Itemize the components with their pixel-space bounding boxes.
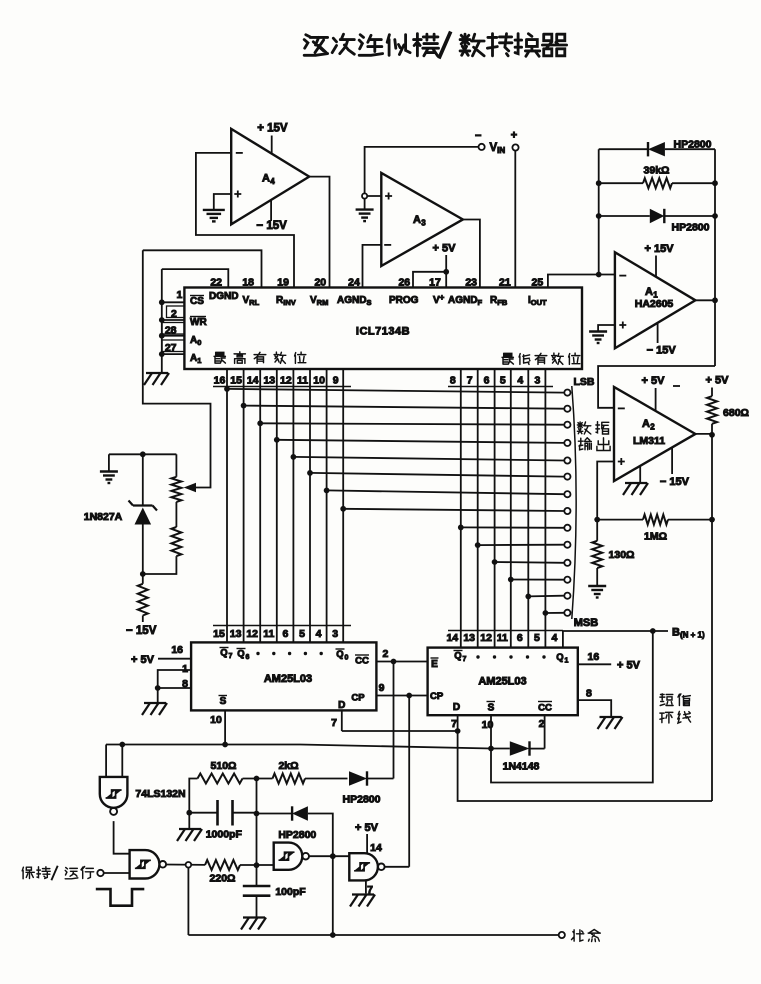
- svg-text:12: 12: [280, 375, 292, 387]
- terminal 状态: [559, 932, 565, 938]
- svg-text:6: 6: [517, 632, 523, 644]
- svg-text:+ 5V: + 5V: [433, 243, 457, 255]
- svg-text:22: 22: [210, 277, 222, 289]
- ground at U2 pin8: [142, 703, 167, 715]
- svg-text:1MΩ: 1MΩ: [644, 531, 667, 543]
- wire to ground A3: [364, 199, 366, 210]
- svg-text:ICL7134B: ICL7134B: [356, 326, 410, 338]
- DAC top pin numbers: [210, 277, 543, 289]
- wire A3 output to pin23: [463, 220, 480, 288]
- DAC top pin names: [209, 291, 547, 307]
- resistor 39k: [596, 178, 718, 188]
- svg-text:13: 13: [230, 628, 242, 640]
- terminal VIN+: [511, 130, 519, 151]
- ground at control pins: [144, 373, 169, 385]
- svg-text:− 15V: − 15V: [256, 220, 287, 232]
- svg-text:7: 7: [463, 656, 467, 663]
- svg-text:Q: Q: [336, 649, 343, 660]
- label HP2800 top: [674, 139, 712, 151]
- svg-text:AGNDF: AGNDF: [448, 295, 482, 307]
- terminal VIN-: [475, 130, 485, 150]
- label 2kΩ: [278, 760, 298, 772]
- D bus line: [342, 728, 461, 734]
- CC bus down to timing chain: [393, 662, 395, 779]
- svg-text:16: 16: [588, 651, 600, 663]
- A1 +15V supply: [644, 243, 674, 277]
- svg-text:20: 20: [314, 277, 326, 289]
- wire IOUT pin25 to A1 -: [548, 275, 615, 288]
- DAC label 最低有效位: [502, 353, 580, 364]
- junction zener top: [140, 451, 146, 457]
- wire A3 - input to pin24: [363, 245, 382, 288]
- svg-text:11: 11: [263, 628, 274, 640]
- potentiometer lower resistor: [143, 502, 182, 574]
- label 680Ω: [723, 407, 749, 419]
- CP bus down to gate4: [408, 696, 410, 867]
- svg-text:Q: Q: [556, 652, 563, 663]
- A4 -15V supply: [256, 200, 287, 232]
- svg-text:4: 4: [316, 628, 322, 640]
- DAC control pin stubs CS WR A0 A1: [162, 289, 185, 354]
- +5V at pin17: [433, 243, 457, 272]
- svg-text:− 15V: − 15V: [647, 345, 677, 357]
- svg-text:HA2605: HA2605: [635, 298, 674, 310]
- label 74LS132N: [135, 788, 185, 800]
- svg-text:3: 3: [421, 219, 426, 228]
- svg-text:9: 9: [379, 682, 385, 694]
- svg-text:CC: CC: [538, 703, 552, 714]
- svg-text:15: 15: [230, 375, 242, 387]
- +5V pullup label: [706, 375, 730, 387]
- IC U3 AM25L03 body: [428, 648, 578, 716]
- svg-text:7: 7: [331, 717, 337, 729]
- wire A4 feedback to pin19: [196, 153, 294, 288]
- svg-text:1N4148: 1N4148: [503, 761, 540, 773]
- svg-text:4: 4: [270, 177, 275, 186]
- feedback right rail: [714, 149, 716, 366]
- A2 output rail down: [711, 434, 713, 801]
- svg-text:E: E: [431, 659, 438, 670]
- svg-text:LM311: LM311: [633, 435, 665, 447]
- G1 output wire: [114, 821, 130, 854]
- label 状态: [572, 930, 601, 942]
- DAC label 最高有效位: [214, 352, 306, 364]
- label 1N827A: [84, 511, 123, 523]
- comparator to D line: [458, 731, 712, 801]
- svg-text:13: 13: [463, 632, 475, 644]
- svg-text:S: S: [220, 696, 227, 707]
- op-amp A1 HA2605: [615, 252, 696, 348]
- svg-text:6: 6: [282, 628, 288, 640]
- wire VRL pin18 to wiper: [143, 250, 262, 487]
- svg-text:3: 3: [332, 628, 338, 640]
- svg-text:A: A: [413, 214, 421, 226]
- U3 pin8 ground: [578, 688, 611, 717]
- svg-text:− 15V: − 15V: [660, 476, 690, 488]
- data output bracket: [572, 386, 576, 619]
- U2 pin1 pin8 to ground: [155, 663, 191, 702]
- svg-text:7: 7: [229, 653, 233, 660]
- U2 CC label: [355, 655, 369, 667]
- wire A4 output to pin20: [309, 177, 329, 288]
- resistor 510: [189, 774, 242, 813]
- wire A2 + input branch: [597, 462, 614, 520]
- DAC left pin names: [190, 296, 207, 366]
- U3 pin16 +5V: [578, 651, 641, 672]
- resistor 130: [592, 520, 602, 586]
- zener diode 1N827A: [129, 454, 158, 574]
- svg-text:8: 8: [182, 678, 188, 690]
- svg-text:74LS132N: 74LS132N: [135, 788, 185, 800]
- label B(N+1): [672, 627, 705, 640]
- svg-text:D: D: [453, 702, 460, 713]
- svg-text:+ 5V: + 5V: [642, 375, 666, 387]
- svg-text:HP2800: HP2800: [672, 222, 710, 234]
- U2 CC pin2 wire: [376, 648, 427, 665]
- U2 output labels Q7-Q0: [220, 648, 349, 662]
- resistor 2k: [243, 774, 348, 784]
- svg-text:5: 5: [500, 375, 506, 387]
- label 1000pF: [206, 829, 243, 841]
- feedback wire to status line: [187, 868, 189, 935]
- label LSB: [574, 376, 595, 388]
- label 保持/运行: [22, 866, 94, 880]
- svg-text:13: 13: [263, 375, 275, 387]
- svg-text:10: 10: [313, 375, 325, 387]
- svg-text:680Ω: 680Ω: [723, 407, 749, 419]
- wire A3 + to VIN-: [365, 147, 478, 194]
- potentiometer upper element: [171, 454, 181, 502]
- svg-text:+ 15V: + 15V: [644, 243, 674, 255]
- wire VIN+ to pin21: [514, 151, 516, 288]
- svg-text:11: 11: [297, 375, 308, 387]
- label 130Ω: [609, 549, 635, 561]
- wire A1 output: [695, 297, 717, 303]
- control ground bus: [159, 269, 165, 372]
- svg-text:HP2800: HP2800: [674, 139, 712, 151]
- svg-text:S: S: [488, 703, 495, 714]
- svg-text:HP2800: HP2800: [278, 829, 316, 841]
- svg-text:10: 10: [210, 714, 222, 726]
- DAC bottom pins 8-3 verticals to U3: [448, 369, 553, 648]
- svg-text:4: 4: [551, 632, 557, 644]
- S-bar bus line: [106, 745, 491, 749]
- A2 -15V supply: [660, 448, 690, 489]
- diode HP2800 discharge: [257, 806, 333, 856]
- diode HP2800 top: [599, 142, 715, 156]
- svg-text:CP: CP: [430, 691, 444, 702]
- svg-text:7: 7: [451, 718, 457, 730]
- svg-text:MSB: MSB: [574, 617, 599, 629]
- G3 output to status line: [332, 856, 334, 935]
- diode HP2800 second: [596, 209, 718, 223]
- DAC bottom pins 16-9 verticals to U2: [213, 369, 351, 642]
- ground below 100pF: [241, 918, 266, 930]
- ground below 130: [588, 586, 606, 598]
- svg-text:A: A: [642, 418, 650, 430]
- label 短循环线: [660, 694, 691, 723]
- svg-text:510Ω: 510Ω: [211, 760, 237, 772]
- U3 top pin numbers: [446, 631, 562, 645]
- svg-text:100pF: 100pF: [275, 886, 306, 898]
- wire A2 output: [695, 432, 714, 438]
- svg-text:14: 14: [370, 842, 382, 854]
- svg-text:2: 2: [382, 648, 388, 660]
- svg-text:1: 1: [176, 289, 182, 301]
- svg-text:+ 5V: + 5V: [131, 654, 155, 666]
- wire A1 + to ground: [598, 325, 615, 332]
- U3 bottom pin numbers: [451, 718, 545, 731]
- U2 bottom labels: [219, 696, 346, 712]
- label MSB: [574, 617, 599, 629]
- svg-text:AM25L03: AM25L03: [478, 676, 526, 688]
- svg-text:1N827A: 1N827A: [84, 511, 123, 523]
- U3 CC pin2 stub: [544, 715, 546, 748]
- wire A1 out to A2 -: [598, 366, 715, 408]
- svg-text:+ 5V: + 5V: [706, 375, 730, 387]
- op-amp A3: [381, 173, 463, 266]
- IC U1 ICL7134B body: [184, 288, 582, 370]
- pin number boxes: [162, 306, 185, 352]
- G3 output wire: [309, 853, 349, 859]
- A2 ground: [623, 466, 648, 495]
- svg-text:14: 14: [446, 632, 458, 644]
- svg-text:3: 3: [534, 375, 540, 387]
- svg-text:A: A: [645, 286, 653, 298]
- svg-text:DGND: DGND: [209, 291, 238, 302]
- svg-text:0: 0: [345, 655, 349, 662]
- diode HP2800 charge: [349, 771, 394, 785]
- svg-text:AM25L03: AM25L03: [264, 673, 312, 685]
- svg-text:4: 4: [517, 375, 523, 387]
- svg-text:−: −: [475, 130, 481, 142]
- ground at A4: [203, 210, 225, 222]
- A1 -15V supply: [647, 323, 677, 357]
- G4 pin7 ground: [350, 880, 375, 906]
- G1 input wires: [106, 745, 122, 777]
- pulse waveform symbol: [96, 889, 145, 906]
- junction S line U2 pin10: [222, 742, 228, 748]
- status line: [188, 932, 558, 938]
- svg-text:23: 23: [465, 277, 477, 289]
- svg-text:CC: CC: [355, 656, 369, 667]
- svg-text:8: 8: [450, 375, 456, 387]
- svg-text:PROG: PROG: [389, 295, 419, 306]
- svg-text:+ 5V: + 5V: [617, 660, 641, 672]
- U2 CP label: [351, 693, 365, 704]
- label 510Ω: [211, 760, 237, 772]
- svg-text:1: 1: [182, 663, 188, 675]
- svg-text:8: 8: [586, 688, 592, 700]
- U2 D pin7 stub: [331, 710, 342, 731]
- svg-text:7: 7: [467, 375, 473, 387]
- junction zener bottom: [140, 571, 146, 577]
- svg-text:25: 25: [532, 277, 544, 289]
- svg-text:2: 2: [539, 718, 545, 730]
- A4 + input ground wire: [214, 194, 231, 210]
- svg-text:27: 27: [165, 342, 177, 354]
- U2 top pin numbers: [213, 626, 351, 641]
- A4 +15V supply: [257, 123, 288, 154]
- gate G3: [274, 843, 309, 870]
- wire 220 to G3: [240, 862, 274, 868]
- svg-text:9: 9: [333, 375, 339, 387]
- wire DGND pin22: [162, 269, 229, 287]
- wire pin26 to +5V node: [413, 272, 446, 288]
- resistor 220: [205, 860, 240, 870]
- U3 CP label: [430, 691, 444, 702]
- svg-text:14: 14: [247, 375, 259, 387]
- U3 E label: [431, 658, 439, 670]
- U3 D pin7 stub: [457, 715, 459, 731]
- feedback left rail: [598, 149, 600, 274]
- svg-text:16: 16: [214, 375, 226, 387]
- label VIN: [490, 142, 506, 155]
- U2 S pin10 stub: [210, 710, 225, 744]
- label 39kΩ: [644, 165, 670, 177]
- diode 1N4148: [491, 741, 545, 755]
- svg-text:A: A: [262, 173, 270, 185]
- data output bus rows with terminals: [224, 386, 570, 616]
- ground below 510: [177, 813, 202, 841]
- U2 +5V pin16: [131, 644, 191, 666]
- label -15V: [126, 625, 157, 637]
- svg-text:28: 28: [165, 325, 177, 337]
- feed-through node: [186, 862, 192, 868]
- short cycle wire: [491, 631, 653, 783]
- svg-text:D: D: [338, 700, 345, 711]
- svg-text:2kΩ: 2kΩ: [278, 760, 298, 772]
- G4 +5V pin14: [355, 822, 382, 854]
- U3 S pin10 stub: [490, 715, 492, 748]
- ground at reference rail: [100, 472, 118, 484]
- svg-text:11: 11: [497, 632, 508, 644]
- label HP2800 discharge: [278, 829, 316, 841]
- svg-text:19: 19: [277, 277, 289, 289]
- resistor 680: [707, 388, 717, 434]
- svg-text:12: 12: [480, 632, 492, 644]
- svg-text:CS: CS: [190, 296, 204, 307]
- wiper arrowhead: [184, 483, 196, 493]
- label 100pF: [275, 886, 306, 898]
- wire to ground left: [108, 454, 110, 471]
- svg-text:HP2800: HP2800: [343, 794, 381, 806]
- svg-text:5: 5: [299, 628, 305, 640]
- svg-text:− 15V: − 15V: [126, 625, 157, 637]
- label HP2800 charge: [343, 794, 381, 806]
- svg-text:15: 15: [213, 628, 225, 640]
- label 1N4148: [503, 761, 540, 773]
- svg-text:+ 15V: + 15V: [257, 123, 288, 135]
- svg-text:24: 24: [348, 277, 360, 289]
- G2 output wire: [166, 864, 205, 866]
- U3 bottom labels: [453, 702, 552, 714]
- junction A1 inverting node: [596, 272, 602, 278]
- svg-text:LSB: LSB: [574, 376, 595, 388]
- G4 output wire: [385, 866, 410, 868]
- svg-text:6: 6: [484, 375, 490, 387]
- U2 CP pin9 wire: [376, 682, 427, 698]
- svg-text:+ 5V: + 5V: [355, 822, 379, 834]
- svg-text:1000pF: 1000pF: [206, 829, 243, 841]
- svg-text:6: 6: [246, 654, 250, 661]
- svg-text:21: 21: [499, 277, 511, 289]
- svg-text:WR: WR: [190, 317, 207, 328]
- svg-text:5: 5: [534, 632, 540, 644]
- svg-text:39kΩ: 39kΩ: [644, 165, 670, 177]
- capacitor 1000pF: [186, 800, 259, 826]
- svg-text:16: 16: [171, 644, 183, 656]
- U3 output labels Q7-Q1: [454, 651, 569, 665]
- svg-text:2: 2: [650, 423, 655, 432]
- ground at A1 +: [589, 332, 607, 344]
- gate G2: [130, 850, 167, 878]
- wire B(N+1) node: [563, 628, 668, 648]
- resistor to -15V: [138, 574, 148, 622]
- svg-text:Q: Q: [237, 649, 244, 660]
- wire hold/run to G2: [104, 872, 130, 874]
- capacitor 100pF: [243, 865, 271, 917]
- svg-text:1: 1: [565, 658, 569, 665]
- op-amp A2 LM311: [614, 387, 695, 481]
- title 逐次近似模/数转换器: [304, 32, 566, 59]
- svg-text:CP: CP: [351, 693, 365, 704]
- svg-text:130Ω: 130Ω: [609, 549, 635, 561]
- op-amp A4: [231, 129, 309, 224]
- svg-text:Q: Q: [454, 651, 461, 662]
- IC U2 AM25L03 body: [191, 642, 376, 710]
- ground at U3 pin8: [598, 717, 623, 729]
- svg-text:17: 17: [429, 277, 441, 289]
- RC node bus: [256, 779, 258, 866]
- label 1MΩ: [644, 531, 667, 543]
- terminal hold/run: [97, 870, 103, 876]
- junction S line gate input: [119, 742, 125, 748]
- gate G4: [349, 853, 384, 880]
- gate G1 74LS132N: [100, 777, 128, 815]
- label 220Ω: [210, 873, 236, 885]
- A2 +5V supply: [642, 375, 680, 411]
- svg-text:26: 26: [398, 277, 410, 289]
- svg-text:18: 18: [242, 277, 254, 289]
- node at A3 + input: [362, 193, 367, 198]
- svg-text:+: +: [511, 130, 517, 142]
- label 数据输出: [577, 422, 610, 451]
- wire A3 + input: [365, 195, 382, 197]
- svg-text:12: 12: [246, 628, 258, 640]
- svg-text:AGNDS: AGNDS: [337, 295, 371, 307]
- svg-text:Q: Q: [220, 648, 227, 659]
- junction S line 1N4148: [488, 746, 494, 752]
- resistor 1M row: [594, 515, 715, 525]
- svg-text:220Ω: 220Ω: [210, 873, 236, 885]
- reference top rail: [109, 453, 176, 455]
- ground at A3: [356, 210, 374, 222]
- svg-text:2: 2: [171, 308, 177, 320]
- label HP2800 second: [672, 222, 710, 234]
- junction +5V pin17: [443, 269, 449, 275]
